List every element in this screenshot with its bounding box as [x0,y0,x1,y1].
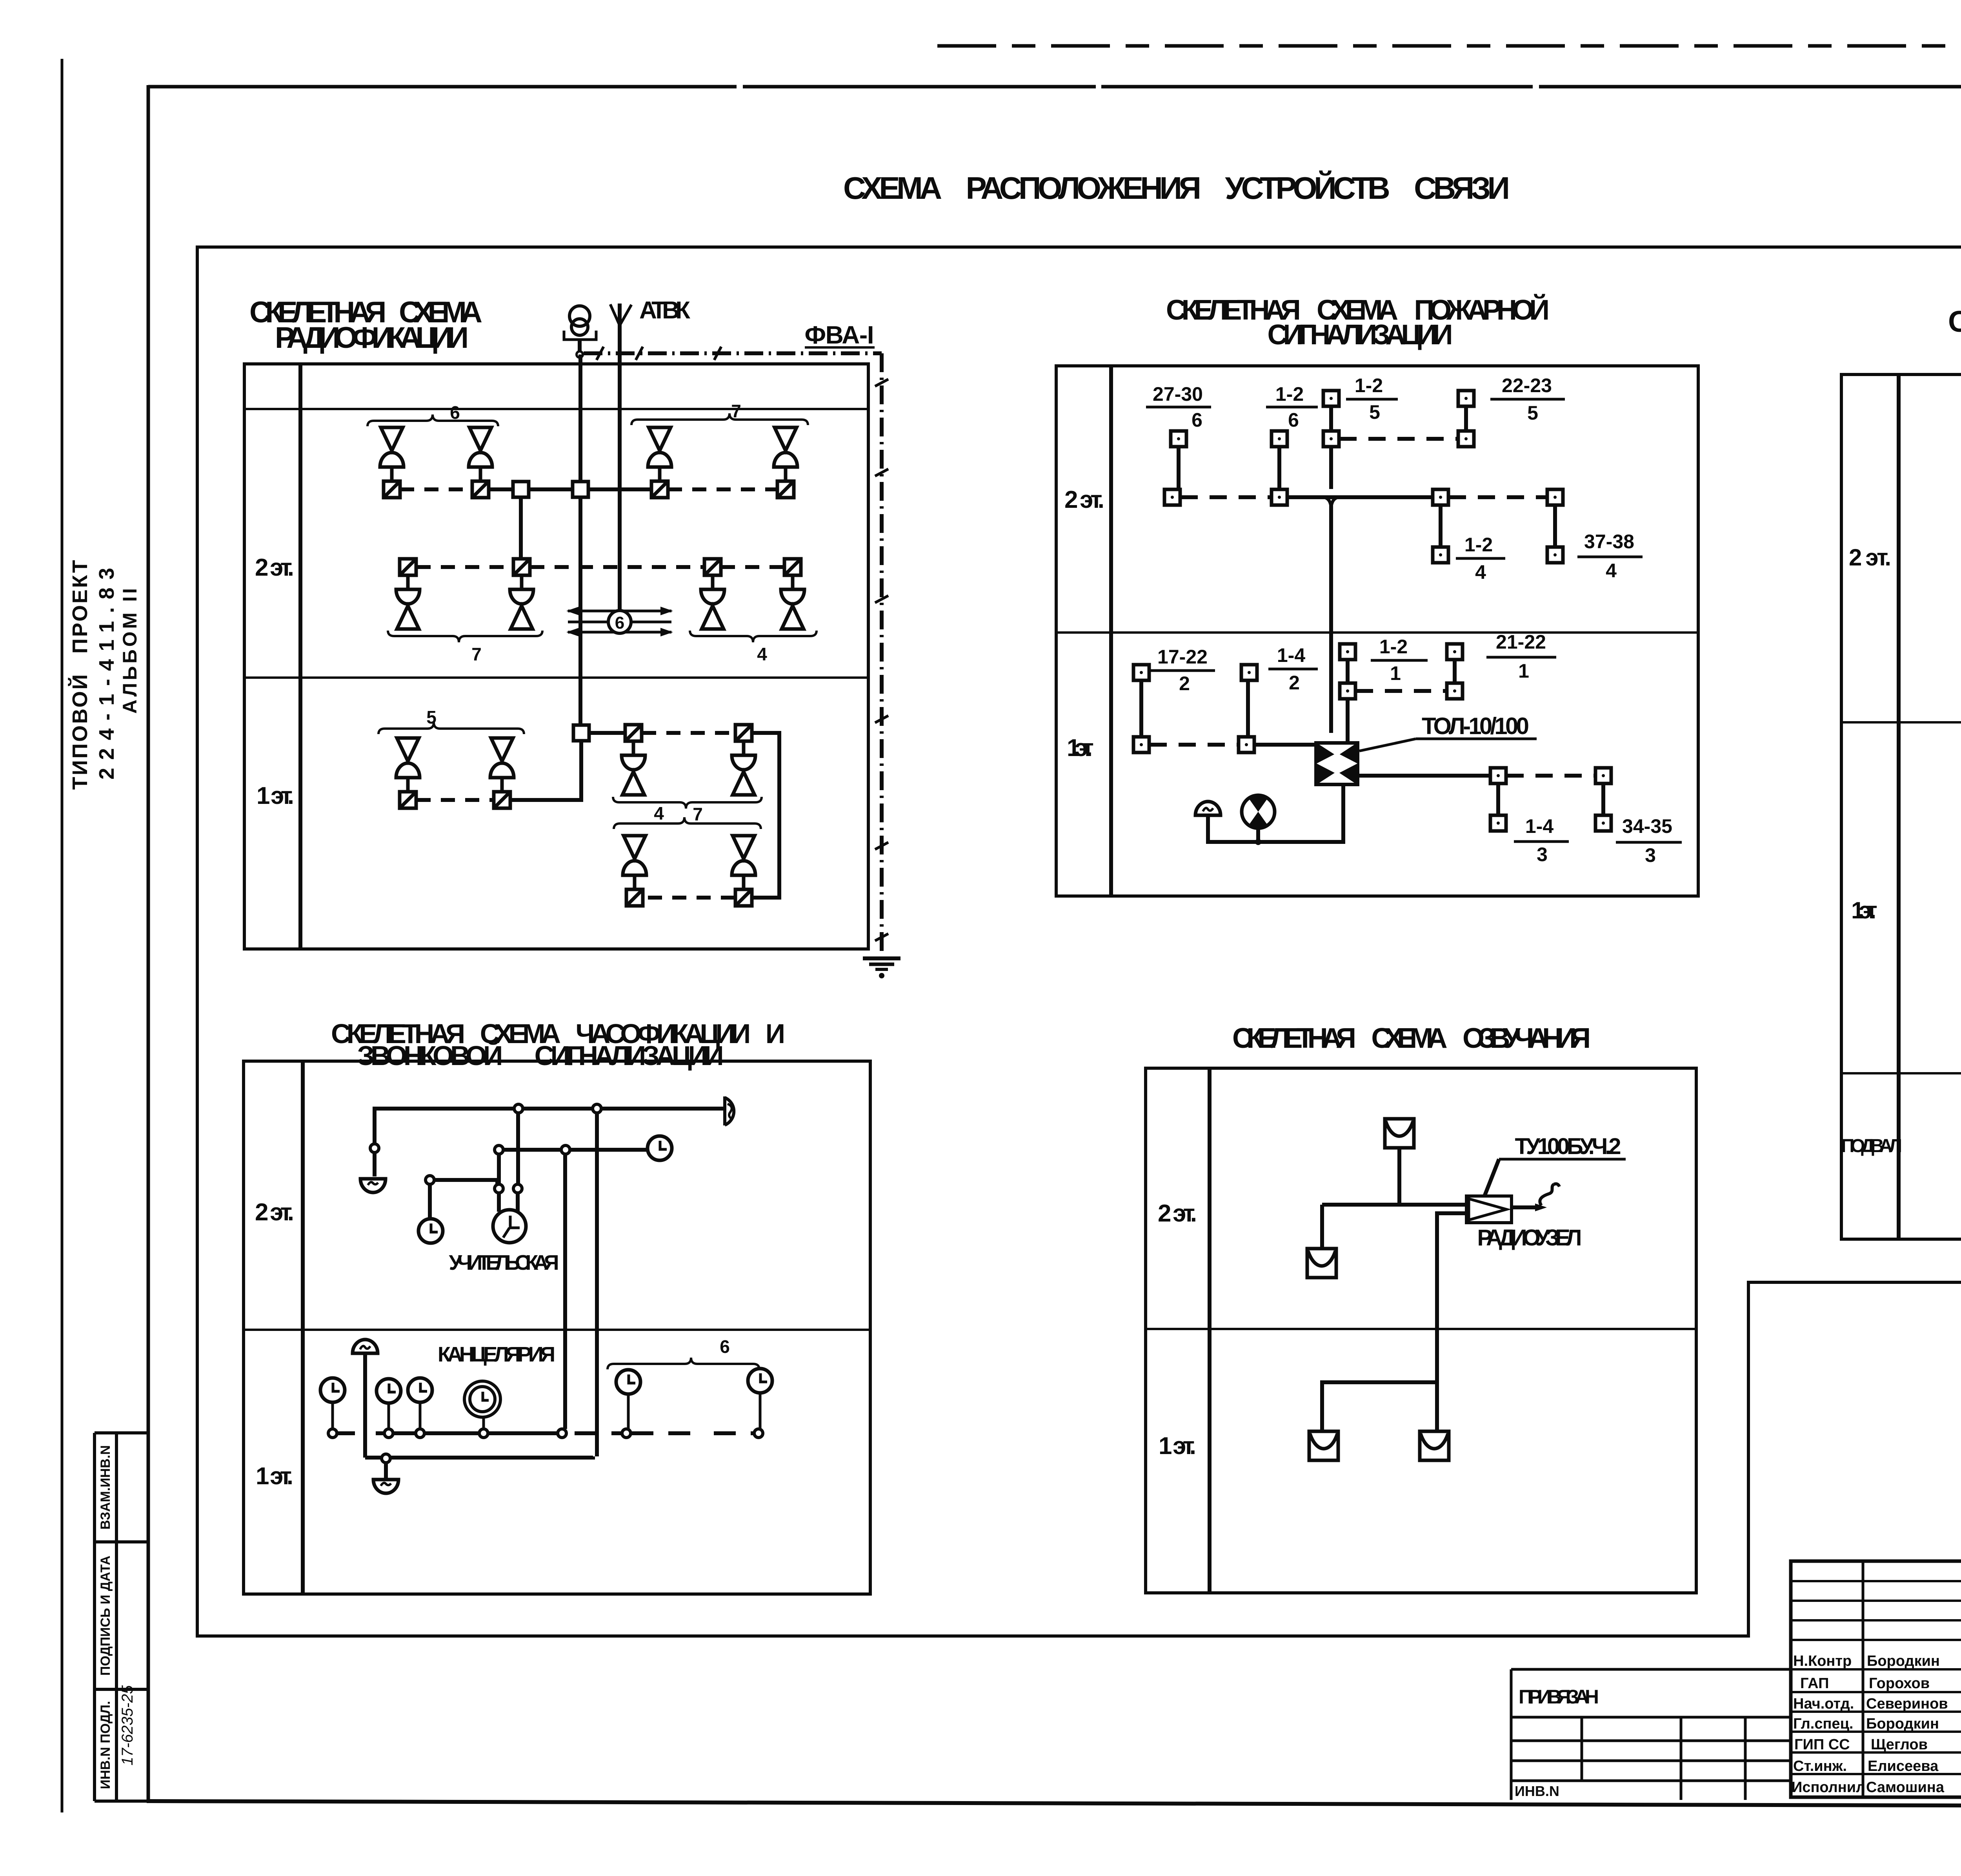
detector [1433,489,1448,505]
svg-text:СИГНАЛИЗАЦИИ: СИГНАЛИЗАЦИИ [1268,319,1453,351]
clock [408,1378,432,1402]
sidebar stamp box [95,1433,148,1801]
svg-text:5: 5 [1369,401,1380,423]
wire speaker stem [1397,1148,1401,1205]
name entries [1866,1653,1948,1796]
svg-text:4: 4 [757,644,767,664]
brace group 6 [608,1358,759,1369]
svg-text:6: 6 [1192,409,1202,431]
radio socket [400,559,416,575]
clock [616,1370,640,1394]
label 22-23/5 [1502,374,1552,424]
brace group 7 [631,413,808,425]
detector [1323,431,1339,447]
svg-text:Горохов: Горохов [1869,1675,1930,1692]
svg-text:2 эт.: 2 эт. [1849,544,1891,571]
floor label column [301,1061,305,1594]
svg-text:Самошина: Самошина [1866,1779,1945,1796]
telephone panel box [1841,374,1961,1239]
svg-text:1-2: 1-2 [1355,374,1383,396]
ring junction [382,1454,390,1463]
tick marks on ФВА wire [597,347,721,360]
svg-text:ГИП СС: ГИП СС [1794,1736,1850,1753]
2эт wire [1322,1205,1466,1249]
svg-text:ПОДПИСЬ И ДАТА: ПОДПИСЬ И ДАТА [98,1556,113,1676]
ring junction [622,1429,631,1438]
wire trunk down [1329,505,1333,733]
wire detector pair [1277,447,1281,489]
svg-text:АТВК: АТВК [639,297,690,324]
svg-text:СКЕЛЕТНАЯ СХЕМА ТЕЛЕФОНИЗАЦИИ: СКЕЛЕТНАЯ СХЕМА ТЕЛЕФОНИЗАЦИИ [1948,305,1961,338]
2эт main bus [1181,495,1271,499]
floor divider 1/подвал [1841,1072,1961,1074]
ring junction [479,1429,488,1438]
svg-text:ЗВОНКОВОЙ СИГНАЛИЗАЦИИ: ЗВОНКОВОЙ СИГНАЛИЗАЦИИ [357,1040,724,1071]
svg-text:1эт.: 1эт. [1851,897,1877,923]
detector [1547,489,1563,505]
svg-text:ГАП: ГАП [1800,1675,1829,1692]
wire detector pair [1177,447,1181,489]
bell [725,1096,734,1125]
bell horn 2эт [360,1179,386,1192]
svg-text:РАДИОФИКАЦИИ: РАДИОФИКАЦИИ [275,321,469,354]
clock stems [333,1394,760,1429]
svg-text:2: 2 [1289,672,1300,694]
1эт lower wire [365,1456,593,1458]
wire station bottom [1208,786,1343,842]
detector [1272,489,1287,505]
sheet trim line left [61,59,64,1812]
svg-text:Щеглов: Щеглов [1871,1736,1928,1753]
floor divider [244,676,868,679]
clock [748,1369,772,1393]
svg-text:Северинов: Северинов [1866,1696,1948,1712]
radio socket [625,725,642,741]
label 1-2/5 [1355,374,1383,423]
junction box trunk end [573,725,589,741]
label 34-35/3 [1622,815,1672,866]
1эт left bus [1150,743,1238,747]
svg-text:ТОЛ-10/100: ТОЛ-10/100 [1422,713,1529,739]
svg-text:6: 6 [450,402,460,423]
svg-text:ПОДВАЛ: ПОДВАЛ [1841,1136,1902,1156]
label 1-4/2 [1277,644,1305,694]
svg-text:Гл.спец.: Гл.спец. [1793,1716,1853,1732]
detector [1171,431,1186,447]
loudspeaker [490,738,514,792]
wire R4 drop [497,1154,501,1184]
detector [1447,683,1463,699]
wire central pair [1329,398,1333,489]
2эт lower bus wire [417,565,513,569]
brace group 6 [367,414,498,426]
svg-text:3: 3 [1537,843,1548,865]
svg-text:2 эт.: 2 эт. [255,554,294,581]
content area border [197,247,1961,1636]
brace group 4 middle [613,797,762,809]
svg-text:1 эт.: 1 эт. [256,1463,293,1490]
floor label column [1109,366,1113,896]
wire drop [1496,784,1500,815]
ring junction [416,1429,424,1438]
detector [1595,815,1611,831]
wire transformer drop [578,340,582,352]
wire second trunk [1346,660,1350,741]
radio socket [784,559,801,575]
svg-text:1-4: 1-4 [1525,815,1554,837]
label 27-30/6 [1153,383,1203,431]
ring junction [561,1145,570,1154]
svg-text:2 эт.: 2 эт. [1064,486,1104,513]
column lines [1863,1561,1961,1797]
ring junction [370,1144,379,1153]
svg-text:37-38: 37-38 [1584,531,1634,553]
svg-text:СХЕМА РАСПОЛОЖЕНИЯ УСТРОЙСТВ С: СХЕМА РАСПОЛОЖЕНИЯ УСТРОЙСТВ СВЯЗИ [843,170,1510,205]
svg-text:ИНВ.N ПОДЛ.: ИНВ.N ПОДЛ. [98,1701,113,1789]
svg-text:4: 4 [654,803,664,823]
loudspeaker [380,427,404,481]
clock [648,1136,672,1160]
floor label column [1208,1068,1212,1593]
svg-text:1-2: 1-2 [1275,383,1304,405]
radio socket [777,481,794,498]
1эт main bus wire [333,1431,565,1435]
detector [1433,547,1448,563]
junction box [513,482,529,497]
brace group 5 [378,722,524,734]
attic line [244,408,868,410]
upper dashed bus [1339,437,1458,441]
loudspeaker box left [1307,1249,1336,1278]
radio socket [384,481,400,498]
floor label column [1897,374,1901,1239]
svg-text:АЛЬБОМ II: АЛЬБОМ II [119,588,141,714]
wire horn drop [363,1354,367,1458]
ground [863,956,900,960]
label 1-2/1 [1379,636,1408,684]
loudspeaker box bottom left [1309,1431,1338,1460]
ring junction [513,1184,522,1193]
wire ФВА-I horizontal dash-dot [584,351,882,355]
ring junction [514,1104,523,1113]
svg-text:КАНЦЕЛЯРИЯ: КАНЦЕЛЯРИЯ [438,1343,555,1366]
svg-text:7: 7 [471,644,482,664]
revision rows [1791,1581,1961,1640]
frame top border [148,85,1961,89]
svg-text:34-35: 34-35 [1622,815,1672,837]
detector [1547,547,1563,563]
wire ФВА-I vertical dash-dot [880,353,884,957]
tick marks on ФВА vertical [875,379,888,941]
wire drop [1439,505,1443,547]
floor label column [298,364,302,949]
loudspeaker [701,575,724,629]
svg-text:ПРИВЯЗАН: ПРИВЯЗАН [1519,1686,1599,1708]
antenna АТВК [618,304,622,611]
wire drop [1601,784,1605,815]
radio socket [651,481,668,498]
label 1-2/6 [1275,383,1304,431]
radio socket [735,889,752,906]
2эт second bus wire [499,1148,646,1152]
frame left border [147,85,150,1803]
svg-text:2: 2 [1179,673,1190,694]
svg-text:Бородкин: Бородкин [1866,1716,1939,1732]
ring junction [426,1176,434,1184]
brace group 7 middle [614,817,761,829]
svg-text:1: 1 [1518,660,1529,682]
detector [1133,665,1149,680]
floor divider [244,1329,870,1331]
wire horn2 stem [384,1463,388,1478]
loudspeaker [396,575,420,629]
wire drop [1553,505,1557,547]
loudspeaker [732,836,755,889]
loudspeaker [396,738,420,792]
svg-text:2 эт.: 2 эт. [1158,1200,1197,1227]
wire drop R1 [516,1113,520,1184]
loudspeaker [623,836,646,889]
fire panel box [1056,366,1698,896]
amplifier feed wire [1322,1213,1466,1430]
svg-text:СКЕЛЕТНАЯ СХЕМА ОЗВУЧАНИЯ: СКЕЛЕТНАЯ СХЕМА ОЗВУЧАНИЯ [1232,1023,1591,1054]
radio socket [626,889,643,906]
long riser A [563,1154,567,1429]
bell horn 1эт lower [373,1480,398,1493]
svg-text:ВЗАМ.ИНВ.N: ВЗАМ.ИНВ.N [98,1445,113,1529]
detector [1340,683,1355,699]
detector [1458,431,1474,447]
label 1-4/3 [1525,815,1554,865]
node 6 distribution arrows [568,611,671,632]
office clock КАНЦЕЛЯРИЯ [464,1381,500,1417]
floor divider 2/1 [1841,721,1961,723]
svg-text:1-4: 1-4 [1277,644,1305,666]
loudspeaker [469,427,492,481]
ring junction [495,1145,503,1154]
radio socket [400,792,416,808]
svg-text:ТИПОВОЙ ПРОЕКТ: ТИПОВОЙ ПРОЕКТ [68,560,92,790]
fire lamp [1242,795,1275,828]
amplifier ТУ100 [1466,1196,1512,1223]
1эт right bus [1359,774,1490,778]
junction box trunk [573,482,588,497]
detector [1133,737,1149,753]
bell horn 1эт upper [353,1340,378,1353]
sound panel box [1146,1068,1696,1593]
detector [1595,768,1611,783]
svg-text:22-23: 22-23 [1502,374,1552,396]
radio socket [735,725,752,741]
loudspeaker box bottom right [1420,1431,1449,1460]
long riser B [595,1113,599,1456]
loudspeaker box top [1385,1119,1414,1148]
loudspeaker [648,427,671,481]
svg-text:6: 6 [720,1336,730,1357]
detector [1340,644,1355,660]
title block outer [1791,1561,1961,1797]
detector [1490,768,1506,783]
ring junction [558,1429,566,1438]
ring junction [495,1184,503,1193]
wire lamp stem [1256,829,1260,842]
AC squiggle [1540,1184,1559,1205]
wire stems into master clock [499,1193,518,1212]
svg-text:РАДИОУЗЕЛ: РАДИОУЗЕЛ [1477,1225,1582,1251]
svg-text:5: 5 [426,707,437,727]
ring junction [384,1429,393,1438]
detector [1458,391,1474,406]
wire detector pair [1246,681,1250,736]
svg-text:1-2: 1-2 [1464,534,1493,556]
radio panel box [244,364,868,949]
wire right pair [1464,407,1468,431]
label 17-22/2 [1157,646,1208,694]
amplifier output wire [1512,1205,1541,1209]
svg-text:ФВА-I: ФВА-I [805,321,874,349]
floor divider [1056,631,1698,634]
wire box drop [519,497,523,559]
brace group 7 lower [388,631,542,642]
ring junction [328,1429,337,1438]
transformer T1 [569,306,590,326]
svg-text:27-30: 27-30 [1153,383,1203,405]
loudspeaker [774,427,797,481]
привязан table [1511,1669,1791,1800]
svg-text:Нач.отд.: Нач.отд. [1793,1696,1854,1712]
loudspeaker [510,575,533,629]
svg-text:Н.Контр: Н.Контр [1793,1653,1852,1669]
wire drop [1453,660,1457,683]
2эт upper bus wire [400,487,472,491]
2эт top bus wire [375,1109,724,1176]
clock [320,1378,345,1402]
label 1-2/4 [1464,534,1493,583]
svg-text:6: 6 [615,613,624,633]
svg-text:4: 4 [1606,560,1617,582]
1эт dashed bus [1356,689,1446,693]
1эт left bus wire [417,798,493,802]
ring junction [754,1429,763,1438]
label 37-38/4 [1584,531,1634,582]
svg-text:17-22: 17-22 [1157,646,1208,668]
svg-text:Елисеева: Елисеева [1868,1758,1939,1774]
brace group 4 lower [690,631,817,642]
svg-text:1-2: 1-2 [1379,636,1408,658]
detector [1239,737,1254,753]
master clock УЧИТЕЛЬСКАЯ [493,1210,526,1243]
radio socket [472,481,489,498]
svg-text:1эт.: 1эт. [1067,734,1093,762]
svg-text:21-22: 21-22 [1496,631,1546,653]
ring junction [593,1104,601,1113]
role labels [1792,1653,1865,1796]
detector [1447,644,1463,660]
fire station ТОЛ-10/100 [1314,741,1359,786]
svg-text:ИНВ.N: ИНВ.N [1515,1783,1559,1799]
svg-text:7: 7 [731,401,741,421]
loudspeaker [622,741,645,795]
svg-text:6: 6 [1288,409,1299,431]
detector [1241,665,1257,680]
wire trunk vertical [578,354,582,725]
detector [1272,431,1287,447]
svg-text:УЧИТЕЛЬСКАЯ: УЧИТЕЛЬСКАЯ [449,1251,559,1274]
svg-text:2 эт.: 2 эт. [255,1199,294,1226]
loudspeaker [732,741,755,795]
floor divider [1146,1328,1696,1330]
clock [377,1379,401,1403]
detector [1490,815,1506,831]
fire horn [1195,802,1221,815]
wire detector pair [1139,681,1143,736]
svg-text:Бородкин: Бородкин [1867,1653,1940,1669]
svg-text:7: 7 [693,804,703,824]
label 21-22/1 [1496,631,1546,682]
frame bottom border [147,1801,1961,1807]
svg-text:3: 3 [1645,844,1656,866]
clock panel box [244,1061,870,1594]
svg-text:1: 1 [1390,662,1401,684]
svg-text:Ст.инж.: Ст.инж. [1793,1758,1847,1774]
1эт bus wire [589,731,625,735]
wire right drop [1435,1382,1439,1430]
clock [418,1219,443,1243]
svg-text:1 эт.: 1 эт. [1159,1432,1196,1460]
svg-text:1 эт.: 1 эт. [256,782,294,809]
svg-text:4: 4 [1475,561,1486,583]
svg-text:5: 5 [1527,402,1538,424]
svg-text:ТУ100БУ.Ч.2: ТУ100БУ.Ч.2 [1515,1134,1621,1159]
detector [1323,391,1339,406]
leader line [1359,739,1416,751]
2эт third bus wire [430,1180,497,1218]
node ФВА junction [577,351,583,358]
radio socket [704,559,721,575]
leader line [1484,1159,1499,1196]
radio socket [494,792,510,808]
loudspeaker [781,575,804,629]
radio socket [513,559,530,575]
detector [1164,489,1180,505]
name row lines [1791,1669,1961,1774]
svg-text:Исполнил: Исполнил [1792,1779,1865,1796]
svg-text:17-6235-25: 17-6235-25 [119,1685,136,1765]
top trim dash-dot line [937,44,1961,48]
